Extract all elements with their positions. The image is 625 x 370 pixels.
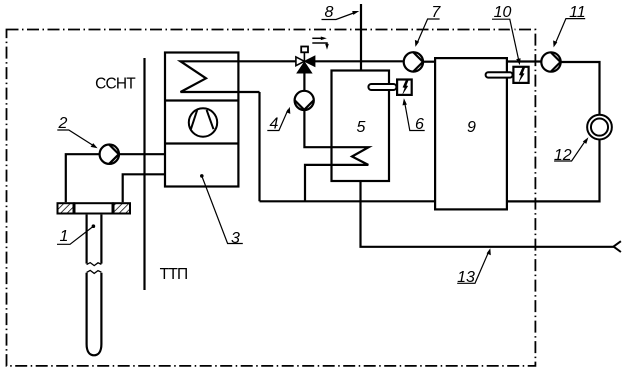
compressor symbol in unit 3 [189,108,217,136]
sensor 6 body [397,80,412,95]
wire: condenser return downpipe [258,92,260,201]
wire: bottom return main to tank 9 [260,200,435,202]
three-way valve with actuator [296,47,315,74]
svg-text:3: 3 [231,230,240,247]
enclosure dash-dot border [7,30,536,366]
label 12 with leader arrow [554,137,588,164]
valve flow direction arrows [312,38,327,44]
well probe 1 flange plate [58,203,131,213]
line 8 cold water inlet [360,4,362,71]
pump 11 [541,52,560,71]
flow meter 12 [587,115,612,140]
sensor 6 lightning symbol [402,79,409,95]
line 13 end arrow [614,241,621,252]
label 1 with leader dot [57,224,95,245]
label 8 with leader arrow [322,4,360,21]
well probe 1 tube with break [87,215,102,356]
wire: pump 11 to riser of consumer loop [561,62,600,115]
label 11 with leader arrow [553,4,586,48]
svg-text:5: 5 [357,119,366,136]
heat pump unit 3 outer box [165,53,238,187]
wire: valve down to pump 4 [303,73,305,91]
unit 3 section dividers [165,99,238,101]
pump 7 [404,52,423,71]
wire: tank 9 to pump 11 [507,60,542,62]
label 6 with leader arrow [403,98,425,133]
label 7 with leader arrow [415,4,441,47]
wire: valve to pump 7 [315,60,403,62]
svg-text:10: 10 [494,4,512,21]
label 10 with leader arrow [492,4,521,65]
sensor 10 lightning symbol [518,67,525,83]
sensor 10 thermowell [486,72,513,77]
label 13 with leader arrow [457,248,491,286]
wire: pump 4 down to coil of tank 5 [304,110,368,201]
wire: pump 7 to tank 9 [423,61,436,63]
sensor 6 thermowell [368,84,396,90]
pump 2 [100,145,119,164]
svg-text:ТТП: ТТП [160,266,188,283]
sensor 10 body [513,67,528,83]
label 2 with leader arrow [57,115,97,148]
tank 5 [332,71,390,182]
svg-text:9: 9 [467,119,476,136]
svg-text:ССНТ: ССНТ [95,76,136,93]
svg-text:1: 1 [60,228,69,245]
wire: pump2 left pipe down to well flange [66,154,100,202]
wire: well return riser to unit 3 [123,174,165,202]
wire: consumer loop return to tank 9 [507,139,600,201]
pump 4 [295,91,314,110]
tank 9 [435,58,507,209]
condenser sigma coil in unit 3 with supply pipe to valve [181,61,296,92]
wire: pump2 right pipe to unit 3 [119,153,165,155]
line 13 hot water outlet [361,181,614,247]
label 3 with leader dot [200,174,243,247]
svg-text:8: 8 [325,4,334,21]
zone boundary line between CCHT and TTP [143,58,145,290]
label 4 with leader arrow [267,107,290,133]
